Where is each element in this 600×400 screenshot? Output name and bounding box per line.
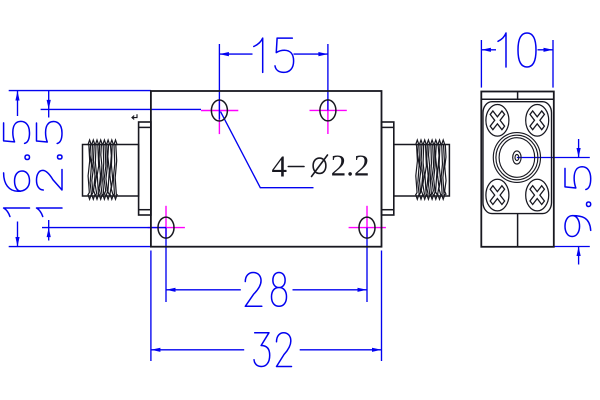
dim 12.5 extension line bottom bbox=[42, 227, 166, 229]
hole center mark (219,110) bbox=[201, 110, 238, 112]
end view bottom centre split bbox=[517, 214, 519, 247]
right connector flange bbox=[382, 122, 394, 215]
dim 10 text bbox=[498, 33, 506, 67]
mounting hole dia2.2 at (166,227) bbox=[158, 217, 174, 238]
dim 28 text bbox=[245, 272, 262, 306]
coaxial connector rings bbox=[493, 133, 540, 183]
left connector threads bbox=[88, 140, 118, 199]
dim 16.5 text bbox=[4, 208, 30, 216]
hole center mark (166,227) bbox=[148, 227, 185, 229]
dim 10 extension lines bbox=[480, 40, 482, 88]
dim 9.5 dimension line top segment bbox=[578, 139, 580, 158]
svg-text:2.2: 2.2 bbox=[331, 148, 370, 183]
dim 16.5 extension line top bbox=[9, 90, 151, 92]
main body outline bbox=[151, 91, 382, 247]
dim 16.5 extension line bottom bbox=[9, 246, 151, 248]
hole center mark (327,110) bbox=[310, 109, 347, 111]
dim 9.5 text bbox=[565, 216, 591, 237]
dim 9.5 extension line from connector center bbox=[517, 157, 590, 159]
right connector threads bbox=[416, 140, 447, 199]
dim 28 dimension line bbox=[166, 289, 241, 291]
mounting hole dia2.2 at (327,110) bbox=[320, 100, 336, 121]
mounting hole dia2.2 at (219,110) bbox=[211, 100, 227, 121]
dim 9.5 extension line bottom bbox=[553, 246, 590, 248]
hole center mark (367,227) bbox=[349, 227, 386, 229]
dim 9.5 dimension line bottom segment bbox=[578, 247, 580, 265]
return-mark glyph bbox=[132, 114, 137, 119]
dim 15 dimension line bbox=[219, 53, 252, 55]
svg-text:4: 4 bbox=[272, 149, 288, 184]
right connector barrel bbox=[394, 145, 450, 197]
end view flange plate bbox=[483, 102, 552, 214]
dim 28 extension lines bbox=[165, 228, 167, 302]
leader line for 4-dia2.2 bbox=[221, 112, 314, 188]
screw at (497,120) bbox=[486, 105, 509, 137]
dim 15 extension lines bbox=[218, 44, 220, 120]
end view body outline bbox=[481, 92, 554, 247]
dim 32 dimension line bbox=[151, 349, 244, 351]
dim 12.5 dimension line bbox=[48, 91, 50, 118]
screw at (537,195) bbox=[526, 179, 549, 211]
dim 12.5 extension line top bbox=[41, 108, 201, 110]
dim 10 dimension line bbox=[481, 49, 496, 51]
end view top seam bbox=[481, 98, 554, 100]
dim 32 extension lines bbox=[150, 251, 152, 362]
dim 12.5 text bbox=[36, 208, 62, 216]
mounting hole dia2.2 at (367,227) bbox=[359, 217, 375, 238]
dim 16.5 dimension line bbox=[17, 91, 19, 116]
left connector barrel bbox=[83, 145, 139, 197]
screw at (497,195) bbox=[486, 179, 509, 211]
end view top centre split bbox=[517, 92, 519, 100]
dim 32 text bbox=[254, 333, 270, 367]
screw at (537,120) bbox=[526, 105, 549, 137]
left connector flange bbox=[139, 122, 151, 215]
dim 15 text bbox=[254, 38, 263, 72]
